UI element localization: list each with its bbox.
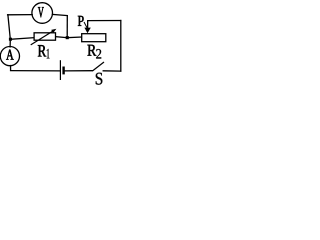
- wire bottom left to battery: [11, 70, 60, 72]
- wire ammeter bottom tick: [10, 66, 12, 71]
- battery long plate: [59, 60, 61, 80]
- ammeter A letter: [6, 50, 13, 60]
- wire R1 right terminal to junction: [56, 37, 67, 38]
- resistor R1 box: [34, 33, 55, 40]
- potentiometer wiper arrowhead: [84, 28, 90, 34]
- node junction dot left: [9, 38, 12, 41]
- wire top-left horizontal to voltmeter: [8, 14, 33, 16]
- battery short thick plate: [62, 67, 64, 75]
- wire voltmeter right horizontal: [52, 14, 67, 15]
- ammeter circle: [0, 47, 19, 66]
- wire ammeter branch vertical: [9, 39, 11, 47]
- wire battery to switch: [65, 70, 92, 72]
- voltmeter V letter: [38, 7, 44, 17]
- wire right vertical: [120, 21, 122, 72]
- label R2: [88, 45, 97, 56]
- node junction dot middle: [66, 36, 69, 39]
- wire voltmeter right vertical down to rail: [66, 16, 68, 38]
- potentiometer R2 box: [82, 34, 106, 42]
- label P: [78, 16, 84, 26]
- label R1: [38, 45, 46, 56]
- switch lever: [92, 62, 104, 71]
- wire top-right rail: [88, 20, 121, 22]
- resistor R1 arrow shaft: [31, 30, 55, 45]
- potentiometer wiper shaft: [87, 21, 89, 29]
- wire rail left segment: [10, 38, 34, 40]
- voltmeter U-V circle: [32, 3, 53, 24]
- wire junction to R2 left terminal: [67, 36, 81, 39]
- resistor R1 arrowhead: [51, 29, 56, 33]
- P leader line: [84, 22, 87, 28]
- label S: [96, 73, 103, 85]
- wire switch to bottom-right corner: [103, 70, 121, 72]
- wire left vertical upper: [8, 15, 10, 39]
